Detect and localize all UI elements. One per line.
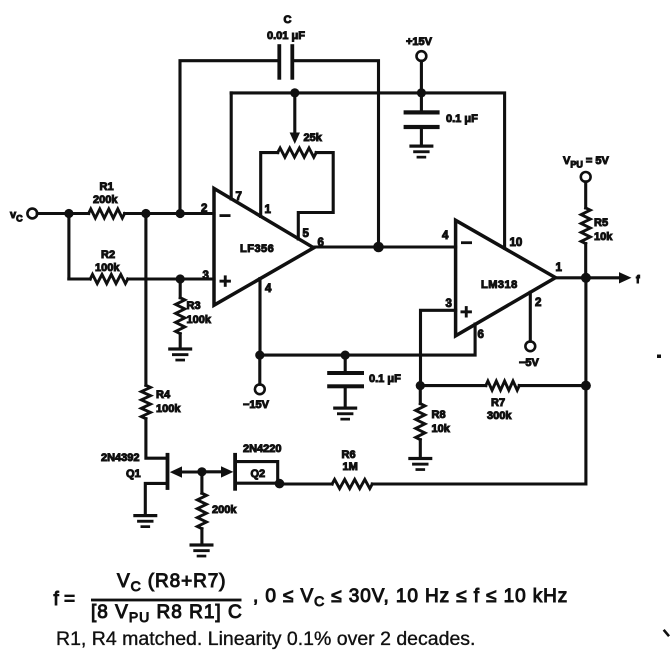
- svg-text:R2: R2: [101, 249, 115, 261]
- op-amp U2 LM318 triangle: [456, 220, 556, 335]
- wire: R4 branch vertical: [144, 214, 147, 386]
- resistor R4 100k: [141, 385, 150, 418]
- svg-text:10k: 10k: [432, 423, 451, 435]
- resistor 200k (gate bias): [200, 472, 203, 493]
- svg-text:Q2: Q2: [251, 468, 266, 480]
- resistor R5 10k: [584, 182, 587, 208]
- ground (Q1 source): [133, 514, 157, 528]
- wire: LM318 pin3 step down to R8 node: [421, 310, 456, 385]
- svg-text:R1, R4 matched. Linearity 0.1%: R1, R4 matched. Linearity 0.1% over 2 de…: [56, 628, 475, 650]
- svg-text:300k: 300k: [487, 410, 512, 422]
- svg-text:R6: R6: [342, 449, 356, 461]
- wire: cap C right lead down to LF356 output node: [294, 61, 379, 247]
- node: mid 0.1uF tap: [341, 351, 350, 360]
- wire: LF356 pin 7 stub: [230, 93, 233, 199]
- svg-text:VPU = 5V: VPU = 5V: [563, 155, 610, 170]
- wire: cap to ground: [420, 129, 423, 144]
- capacitor C plates: [277, 44, 294, 79]
- svg-text:1M: 1M: [343, 461, 358, 473]
- svg-text:, 0 ≤ VC ≤ 30V, 10 Hz ≤ f ≤ 10: , 0 ≤ VC ≤ 30V, 10 Hz ≤ f ≤ 10 kHz: [253, 586, 568, 609]
- resistor R6 1M: [332, 479, 372, 488]
- svg-text:200k: 200k: [93, 194, 118, 206]
- node: R8/R7/pin3: [416, 381, 425, 390]
- wire: LF356 pin 4 down: [258, 279, 261, 356]
- capacitor 0.1 uF (mid): [344, 355, 347, 371]
- svg-text:LM318: LM318: [481, 279, 518, 291]
- resistor R7 300k row: [420, 384, 486, 387]
- node: vC split: [64, 209, 73, 218]
- svg-text:100k: 100k: [187, 314, 212, 326]
- node: pin4 / -15V: [255, 351, 264, 360]
- resistor R1 200k: [89, 209, 125, 218]
- svg-text:LF356: LF356: [240, 243, 274, 255]
- svg-text:7: 7: [236, 191, 242, 203]
- stray mark right: [657, 355, 661, 359]
- wire: +15V rail (second top line) to LM318 pin10: [231, 93, 504, 248]
- svg-text:−15V: −15V: [243, 399, 270, 411]
- svg-text:+15V: +15V: [406, 36, 433, 48]
- svg-text:6: 6: [478, 329, 484, 341]
- stray mark bottom right: [665, 631, 669, 635]
- svg-text:0.1 μF: 0.1 μF: [446, 113, 478, 125]
- svg-text:f: f: [636, 274, 640, 286]
- svg-text:100k: 100k: [156, 403, 181, 415]
- svg-text:3: 3: [203, 270, 209, 282]
- svg-text:10k: 10k: [594, 231, 613, 243]
- svg-text:R1: R1: [100, 181, 114, 193]
- minus sign pin2: [220, 214, 231, 217]
- svg-text:5: 5: [303, 228, 310, 240]
- svg-text:1: 1: [556, 262, 563, 274]
- wire: +15V stem to decoupling cap: [420, 61, 423, 110]
- wire: drop to R2 row: [67, 214, 70, 280]
- terminal vC input: [27, 209, 37, 219]
- ground (R8): [408, 457, 432, 471]
- plus sign pin3 LM318: [461, 306, 472, 317]
- wire: vC row into pin 2: [37, 212, 88, 215]
- svg-text:2: 2: [535, 297, 541, 309]
- ground (top 0.1uF): [409, 145, 433, 159]
- svg-text:25k: 25k: [304, 132, 323, 144]
- node: Q2 output to R6: [275, 479, 285, 489]
- node: Q1/Q2 gate junction: [197, 467, 206, 476]
- wire: pot wiper drop: [293, 93, 296, 134]
- node: R1 right / R4 branch: [141, 209, 150, 218]
- svg-text:R5: R5: [594, 217, 608, 229]
- capacitor 0.1 uF (top) plates: [404, 110, 440, 129]
- resistor R2 100k: [90, 274, 128, 283]
- ground (mid 0.1uF): [333, 407, 357, 421]
- resistor R3 100k: [179, 279, 182, 298]
- svg-text:2: 2: [201, 203, 207, 215]
- svg-text:R4: R4: [156, 389, 171, 401]
- transistor Q2 2N4220 JFET: [202, 453, 278, 491]
- svg-text:C: C: [284, 14, 292, 26]
- svg-text:200k: 200k: [212, 504, 237, 516]
- node: R3 tap on pin3 wire: [176, 274, 185, 283]
- terminal -5V: [525, 341, 535, 351]
- svg-text:100k: 100k: [95, 262, 120, 274]
- minus sign pin4: [461, 241, 472, 244]
- node: +15V on rail: [417, 88, 426, 97]
- op-amp U1 LF356 triangle: [214, 189, 314, 306]
- resistor R8 10k: [419, 386, 422, 404]
- svg-text:[8 VPU R8 R1] C: [8 VPU R8 R1] C: [91, 602, 243, 625]
- svg-text:0.1 μF: 0.1 μF: [369, 373, 401, 385]
- svg-text:10: 10: [510, 237, 523, 249]
- svg-text:R8: R8: [432, 409, 446, 421]
- terminal -15V: [258, 355, 261, 384]
- svg-text:4: 4: [442, 230, 449, 242]
- svg-text:Q1: Q1: [126, 468, 141, 480]
- svg-text:0.01 μF: 0.01 μF: [267, 30, 305, 42]
- ground (R3): [168, 347, 192, 361]
- terminal +15V: [417, 51, 427, 61]
- trim pot 25k loop pin1 to pin5: [261, 153, 278, 217]
- svg-text:2N4392: 2N4392: [101, 452, 140, 464]
- formula f = Vc(R8+R7)/[8 Vpu R8 R1]C: [54, 571, 569, 625]
- node: R7 right / feedback column: [581, 381, 591, 391]
- svg-text:4: 4: [265, 283, 272, 295]
- svg-text:3: 3: [446, 298, 452, 310]
- pot wiper arrowhead: [290, 133, 300, 145]
- wire: cap C left lead to pin2 node vertical: [180, 61, 278, 214]
- plus sign pin3: [220, 275, 231, 286]
- node: wiper on +15V rail: [290, 88, 299, 97]
- svg-text:−5V: −5V: [519, 357, 540, 369]
- wire: V- rail to LM318 pin 6: [260, 324, 475, 355]
- svg-text:R3: R3: [187, 300, 201, 312]
- svg-text:R7: R7: [491, 397, 505, 409]
- terminal VPU: [581, 172, 591, 182]
- svg-text:2N4220: 2N4220: [243, 443, 282, 455]
- svg-text:f =: f =: [54, 589, 76, 610]
- wire: LF356 output to LM318 pin4: [314, 245, 456, 248]
- svg-text:vC: vC: [10, 209, 23, 224]
- wire: LM318 output to f: [556, 276, 621, 279]
- svg-text:1: 1: [265, 204, 272, 216]
- node: pin2 / cap C: [176, 209, 185, 218]
- transistor Q1 2N4392 JFET: [145, 453, 202, 514]
- node: output f junction: [581, 273, 591, 283]
- ground (200k): [190, 543, 214, 557]
- svg-text:VC (R8+R7): VC (R8+R7): [117, 571, 226, 594]
- node: feedback junction on output: [373, 242, 384, 253]
- wire: R4 to Q1 drain: [146, 419, 166, 459]
- wire: feedback column down and R6 row: [372, 278, 586, 484]
- wire: LM318 pin2 stub to -5V: [529, 292, 532, 341]
- output arrowhead: [619, 272, 632, 283]
